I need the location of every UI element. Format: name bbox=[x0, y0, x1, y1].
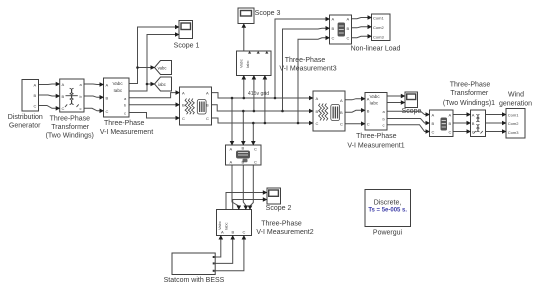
svg-text:Powergui: Powergui bbox=[373, 230, 403, 237]
bus wire phase B bbox=[212, 105, 310, 111]
svg-text:Wind: Wind bbox=[508, 92, 524, 99]
wire VI-measurement c to line block C bbox=[129, 113, 176, 119]
svg-text:Transformer: Transformer bbox=[51, 124, 90, 131]
line block right icon bbox=[319, 104, 340, 121]
wire VI-measurement3 B up-tap bbox=[253, 79, 255, 111]
svg-text:C: C bbox=[182, 116, 185, 121]
svg-text:A: A bbox=[432, 113, 435, 118]
block Three-Phase Transformer (Two Windings)1 bbox=[471, 110, 486, 137]
svg-text:Non-linear Load: Non-linear Load bbox=[351, 45, 401, 52]
wire tap A down to series load bbox=[231, 98, 233, 142]
block line block right bbox=[313, 91, 345, 131]
wire RLC to Non-linear Load Com1 bbox=[352, 18, 369, 19]
wire transformer1 to Wind Com2 bbox=[486, 122, 503, 124]
svg-text:A: A bbox=[230, 160, 233, 165]
wire transformer c to VI-measurement C bbox=[84, 108, 101, 111]
svg-text:B: B bbox=[432, 121, 435, 126]
svg-text:B: B bbox=[232, 230, 235, 235]
wire riser A to nonlinear RLC block bbox=[275, 19, 326, 98]
svg-text:V-I Measurement: V-I Measurement bbox=[100, 129, 153, 136]
wire right line block a to VI-measurement1 A bbox=[345, 99, 362, 100]
svg-text:B: B bbox=[316, 109, 319, 114]
svg-text:B: B bbox=[242, 146, 245, 151]
svg-text:Com1: Com1 bbox=[508, 113, 519, 118]
scope Scope bbox=[405, 92, 418, 108]
svg-text:Statcom with BESS: Statcom with BESS bbox=[164, 277, 225, 284]
svg-text:B: B bbox=[182, 103, 185, 108]
junction bus B to riser B bbox=[281, 110, 284, 113]
svg-text:Com1: Com1 bbox=[373, 16, 384, 21]
svg-text:Three-Phase: Three-Phase bbox=[356, 133, 397, 140]
svg-text:V-I Measurement2: V-I Measurement2 bbox=[256, 229, 313, 236]
svg-text:Scope 2: Scope 2 bbox=[266, 205, 292, 212]
svg-text:Iabc: Iabc bbox=[370, 101, 379, 106]
wire VI-measurement Iabc to Scope 1 input 2 bbox=[129, 35, 176, 92]
junction bus A to VI-measurement3 tap bbox=[243, 97, 246, 100]
svg-text:B: B bbox=[332, 26, 335, 31]
svg-text:A: A bbox=[182, 91, 185, 96]
svg-text:Vabc: Vabc bbox=[239, 59, 244, 68]
wire VI-measurement1 b to RLC1 bbox=[387, 119, 426, 124]
svg-text:C: C bbox=[254, 147, 257, 152]
svg-text:c: c bbox=[383, 123, 385, 128]
wire transformer1 to Wind Com3 bbox=[486, 131, 503, 133]
svg-text:A: A bbox=[316, 96, 319, 101]
wire VI-measurement2 Vabc to Scope 2 input 1 bbox=[226, 193, 263, 210]
svg-text:A: A bbox=[347, 17, 350, 22]
svg-text:C: C bbox=[449, 130, 452, 135]
wire RLC1 to transformer1 B bbox=[453, 122, 467, 124]
svg-text:415v grid: 415v grid bbox=[248, 91, 269, 97]
svg-text:C: C bbox=[254, 160, 257, 165]
svg-text:generation: generation bbox=[499, 100, 532, 107]
wire series load C down to VI-measurement2 c bbox=[250, 165, 253, 207]
svg-text:Discrete,: Discrete, bbox=[374, 200, 402, 207]
svg-text:B: B bbox=[62, 94, 65, 99]
wire DG-B to transformer B bbox=[39, 95, 58, 96]
junction bus C to riser C bbox=[297, 122, 300, 125]
Goto tag vabc bbox=[155, 61, 172, 75]
svg-text:C: C bbox=[340, 122, 343, 127]
transformer1 winding icon bbox=[474, 115, 483, 134]
svg-text:Three-Phase: Three-Phase bbox=[261, 221, 302, 228]
svg-text:Com2: Com2 bbox=[508, 121, 519, 126]
svg-text:C: C bbox=[243, 230, 246, 235]
wire VI-measurement2 Iabc to Scope 2 input 2 bbox=[233, 200, 264, 210]
junction on Vabc line to Goto vabc bbox=[136, 66, 139, 69]
svg-text:B: B bbox=[34, 93, 37, 98]
svg-text:B: B bbox=[472, 121, 475, 126]
wire Statcom out2 to VI-measurement2 B bbox=[215, 239, 233, 263]
svg-text:B: B bbox=[449, 121, 452, 126]
wire right line block b to VI-measurement1 B bbox=[345, 110, 362, 112]
block Three-Phase V-I Measurement bbox=[104, 78, 130, 117]
wire VI-measurement1 Iabc to Scope bbox=[387, 102, 401, 104]
wire DG-C to transformer C bbox=[39, 106, 58, 109]
Goto tag iabc bbox=[155, 77, 172, 91]
block line block left bbox=[180, 87, 212, 125]
svg-text:c: c bbox=[80, 106, 82, 111]
svg-text:A: A bbox=[206, 91, 209, 96]
svg-text:C: C bbox=[34, 103, 37, 108]
svg-text:Ts = 5e-005 s.: Ts = 5e-005 s. bbox=[368, 208, 407, 214]
junction bus B to series load tap bbox=[242, 110, 245, 113]
block Non-linear Load bbox=[372, 14, 391, 41]
svg-text:Scope 3: Scope 3 bbox=[255, 10, 281, 17]
wire arrowheads at block input ports bbox=[56, 15, 507, 239]
svg-text:Three-Phase: Three-Phase bbox=[285, 57, 326, 64]
svg-text:Three-Phase: Three-Phase bbox=[104, 120, 145, 127]
svg-text:A: A bbox=[62, 82, 65, 87]
svg-text:C: C bbox=[106, 109, 109, 114]
svg-text:B: B bbox=[206, 103, 209, 108]
svg-text:A: A bbox=[34, 82, 37, 87]
wire transformer a to VI-measurement A bbox=[84, 83, 101, 86]
svg-text:A: A bbox=[340, 98, 343, 103]
wire tap B down to series load bbox=[242, 111, 244, 142]
block Three-Phase V-I Measurement2 bbox=[217, 210, 252, 236]
svg-text:A: A bbox=[449, 113, 452, 118]
svg-text:C: C bbox=[62, 106, 65, 111]
svg-text:Three-Phase: Three-Phase bbox=[50, 116, 91, 123]
svg-text:Generator: Generator bbox=[9, 123, 41, 130]
svg-text:Scope 1: Scope 1 bbox=[174, 42, 200, 49]
texts inside blocks bbox=[113, 81, 381, 106]
svg-text:B: B bbox=[367, 108, 370, 113]
block Distribution Generator bbox=[22, 80, 39, 112]
wire VI-measurement a to line block A bbox=[129, 93, 176, 98]
wire RLC1 to transformer1 C bbox=[453, 131, 467, 133]
svg-text:(Two Windings): (Two Windings) bbox=[46, 132, 94, 139]
junction on Iabc line to Goto iabc bbox=[146, 83, 149, 86]
junction bus B to VI-measurement3 tap bbox=[253, 110, 256, 113]
svg-text:c: c bbox=[124, 111, 126, 116]
svg-text:B: B bbox=[242, 160, 245, 165]
svg-text:iabc: iabc bbox=[158, 82, 166, 87]
svg-text:C: C bbox=[316, 121, 319, 126]
bus wire phase A bbox=[212, 93, 310, 98]
block Three-Phase V-I Measurement3 bbox=[237, 51, 272, 76]
svg-text:A: A bbox=[221, 230, 224, 235]
wire VI-measurement3 C up-tap bbox=[264, 79, 266, 123]
series RLC middle icon bbox=[236, 151, 250, 163]
svg-text:Scope: Scope bbox=[402, 108, 422, 115]
wire VI-measurement1 a to RLC1 bbox=[387, 111, 426, 114]
svg-text:B: B bbox=[106, 95, 109, 100]
svg-text:A: A bbox=[367, 97, 370, 102]
wire branch to Goto iabc bbox=[147, 83, 151, 85]
wire right line block c to VI-measurement1 C bbox=[345, 123, 362, 125]
svg-text:vabc: vabc bbox=[158, 65, 167, 70]
wire riser B to nonlinear RLC block bbox=[283, 28, 327, 111]
block Three-Phase Transformer (Two Windings) bbox=[60, 79, 84, 112]
junction bus C to VI-measurement3 tap bbox=[264, 122, 267, 125]
svg-text:C: C bbox=[367, 122, 370, 127]
svg-text:V-I Measurement3: V-I Measurement3 bbox=[279, 65, 336, 72]
svg-text:C: C bbox=[472, 130, 475, 135]
svg-text:B: B bbox=[347, 26, 350, 31]
svg-text:Transformer: Transformer bbox=[450, 90, 489, 97]
wire riser C to nonlinear RLC block bbox=[298, 38, 326, 123]
series RLC1 icon bbox=[441, 118, 448, 131]
block Powergui bbox=[365, 190, 411, 227]
statcom port marks bbox=[213, 256, 215, 272]
junction bus C to series load tap bbox=[252, 122, 255, 125]
wire VI-measurement1 c to RLC1 bbox=[387, 125, 426, 132]
wire VI-measurement3 A up-tap bbox=[243, 79, 245, 98]
svg-text:Com3: Com3 bbox=[508, 130, 519, 135]
svg-text:C: C bbox=[332, 36, 335, 41]
wire VI-measurement1 Vabc to Scope bbox=[387, 95, 401, 97]
wire RLC to Non-linear Load Com2 bbox=[352, 27, 369, 28]
svg-text:Vabc: Vabc bbox=[113, 81, 124, 86]
svg-text:Vabc: Vabc bbox=[370, 94, 381, 99]
wire transformer b to VI-measurement B bbox=[84, 96, 101, 97]
wire VI-measurement Vabc to Scope 1 input 1 bbox=[129, 27, 176, 84]
svg-text:A: A bbox=[230, 147, 233, 152]
scope Scope 2 bbox=[267, 188, 281, 204]
wire Statcom out1 to VI-measurement2 A bbox=[215, 239, 221, 257]
svg-text:C: C bbox=[432, 130, 435, 135]
svg-text:C: C bbox=[347, 36, 350, 41]
svg-text:C: C bbox=[206, 116, 209, 121]
wire VI-measurement3 Vabc to Scope 3 bbox=[243, 28, 245, 52]
wire Statcom out3 to VI-measurement2 C bbox=[215, 239, 244, 271]
scope Scope 3 bbox=[238, 8, 254, 24]
svg-text:Iabc: Iabc bbox=[245, 60, 250, 68]
block Three-Phase V-I Measurement1 bbox=[365, 93, 387, 131]
wire DG-A to transformer A bbox=[39, 83, 58, 86]
svg-text:Iabc: Iabc bbox=[114, 88, 123, 93]
wire series load B down to VI-measurement2 b bbox=[243, 165, 246, 207]
block Wind generation bbox=[506, 109, 525, 139]
block series RLC1 bbox=[430, 110, 454, 137]
svg-text:A: A bbox=[106, 83, 109, 88]
VI3 top stubs bbox=[248, 51, 268, 54]
wire RLC to Non-linear Load Com3 bbox=[352, 36, 369, 37]
svg-text:Distribution: Distribution bbox=[8, 114, 43, 121]
bus wire phase C bbox=[212, 118, 310, 123]
block series RLC load middle bbox=[226, 145, 262, 165]
scope Scope 1 bbox=[179, 21, 193, 39]
svg-text:V-I Measurement1: V-I Measurement1 bbox=[347, 143, 404, 150]
wire series load A down to VI-measurement2 a bbox=[232, 165, 239, 207]
wire tap C down to series load bbox=[252, 123, 254, 142]
junction bus A to series load tap bbox=[231, 97, 234, 100]
svg-text:(Two Windings)1: (Two Windings)1 bbox=[443, 100, 495, 107]
wire RLC1 to transformer1 A bbox=[453, 114, 467, 116]
line block left icon bbox=[185, 99, 206, 115]
block series RLC top right bbox=[330, 15, 352, 44]
svg-text:A: A bbox=[472, 113, 475, 118]
wire transformer1 to Wind Com1 bbox=[486, 114, 503, 116]
svg-text:A: A bbox=[332, 17, 335, 22]
series RLC top right icon bbox=[338, 23, 345, 37]
svg-text:B: B bbox=[340, 110, 343, 115]
svg-text:Three-Phase: Three-Phase bbox=[450, 81, 491, 88]
block Statcom with BESS bbox=[172, 253, 215, 275]
wire VI-measurement b to line block B bbox=[129, 104, 176, 106]
svg-text:Iabc: Iabc bbox=[224, 222, 229, 230]
transformer winding icon left bbox=[65, 88, 79, 107]
svg-text:Com3: Com3 bbox=[373, 34, 384, 39]
junction bus A to riser A bbox=[274, 97, 277, 100]
svg-text:Com2: Com2 bbox=[373, 25, 384, 30]
wire branch to Goto vabc bbox=[138, 67, 152, 69]
